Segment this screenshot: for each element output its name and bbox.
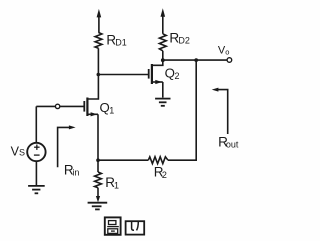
resistor RD1	[95, 33, 102, 49]
wire RD2 to Q2 drain node	[162, 51, 164, 60]
power arrow VDD1	[97, 9, 102, 33]
wire RD1 to Q1 drain	[87, 48, 98, 99]
wire node B to R1	[97, 160, 99, 172]
transistor Q2	[149, 60, 163, 84]
power arrow VDD2	[161, 8, 166, 34]
wire Q2 source to ground	[162, 82, 164, 98]
output terminal circle Vo	[227, 58, 232, 63]
source VS	[27, 143, 45, 161]
wire Vo	[163, 59, 228, 61]
Rout arrow	[212, 88, 228, 134]
wire node A to Q2 gate	[98, 74, 148, 76]
Rin arrow	[58, 125, 76, 167]
ground (R1)	[88, 203, 108, 210]
junction node A (Q1 drain / Q2 gate)	[97, 73, 101, 77]
junction node B (Q1 source / R1 / R2)	[96, 158, 100, 162]
wire Q1 source to node B	[97, 114, 99, 160]
wire VS to ground	[35, 161, 37, 186]
resistor R1	[95, 172, 102, 188]
wire R2 to output branch	[168, 60, 196, 160]
caption 圖	[105, 217, 121, 234]
wire node B to R2	[98, 159, 148, 161]
wire input to VS	[35, 106, 37, 143]
wire R1 to ground with arrow	[96, 188, 100, 203]
transistor Q1	[84, 98, 98, 117]
junction node C (RD2 / Q2 drain / output)	[161, 58, 165, 62]
wire Q1 gate input	[36, 105, 84, 107]
input terminal circle	[55, 104, 59, 108]
junction node output tee	[194, 58, 198, 62]
ground (VS)	[28, 186, 45, 193]
ground (Q2)	[155, 99, 170, 106]
resistor R2	[148, 157, 168, 164]
resistor RD2	[159, 34, 166, 51]
caption 四	[126, 221, 145, 234]
